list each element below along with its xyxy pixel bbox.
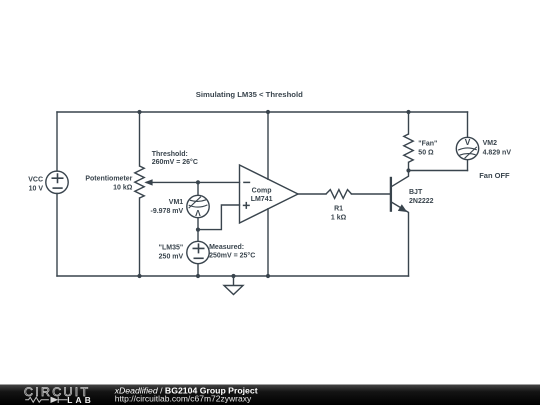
node wiper VM1 junction <box>196 180 200 184</box>
svg-text:V: V <box>465 137 471 147</box>
svg-text:10 V: 10 V <box>29 185 44 192</box>
resistor "Fan" 50 ohm <box>404 134 413 162</box>
wire R1 to BJT base <box>352 193 391 195</box>
wire wiper to op-amp minus input <box>147 181 240 183</box>
svg-text:260mV = 26°C: 260mV = 26°C <box>152 158 198 166</box>
svg-text:Potentiometer: Potentiometer <box>85 175 132 182</box>
svg-text:"Fan": "Fan" <box>418 140 437 147</box>
svg-text:V: V <box>195 208 201 218</box>
node top rail op-amp junction <box>266 110 270 114</box>
svg-text:Comp: Comp <box>252 187 272 194</box>
svg-text:R1: R1 <box>334 205 343 212</box>
svg-text:LM741: LM741 <box>251 196 273 203</box>
wire VM1 to LM35 <box>197 218 199 242</box>
svg-text:250 mV: 250 mV <box>159 253 184 260</box>
wire op-amp top power pin <box>267 112 269 179</box>
svg-text:50 Ω: 50 Ω <box>418 149 434 156</box>
svg-text:VM1: VM1 <box>169 199 184 206</box>
wire VM1 top drop <box>197 182 199 195</box>
voltage source "LM35" <box>187 241 209 263</box>
ground <box>224 276 243 295</box>
potentiometer wiper arrow <box>144 179 152 185</box>
svg-text:VCC: VCC <box>28 176 43 183</box>
wire plus input branch <box>198 205 240 230</box>
svg-text:Threshold:: Threshold: <box>152 151 188 158</box>
wire VM2 bottom <box>467 160 469 171</box>
voltmeter VM1 (rotated 180) <box>187 195 209 218</box>
node bottom rail LM35 junction <box>196 274 200 278</box>
svg-text:4.829 nV: 4.829 nV <box>483 149 512 156</box>
node VM1 LM35 junction <box>196 228 200 232</box>
wire potentiometer bottom riser <box>139 198 141 276</box>
node bottom rail op-amp junction <box>266 274 270 278</box>
node bottom rail ground junction <box>231 274 235 278</box>
resistor R1 1k <box>326 190 352 199</box>
wire left rail upper <box>56 112 58 171</box>
svg-text:250mV = 25°C: 250mV = 25°C <box>209 252 255 260</box>
wire left rail lower <box>56 194 58 277</box>
svg-text:1 kΩ: 1 kΩ <box>331 214 347 221</box>
wire bottom rail <box>57 275 409 277</box>
node top rail fan junction <box>406 110 410 114</box>
wire op-amp output <box>298 193 326 195</box>
svg-text:Measured:: Measured: <box>209 244 244 251</box>
svg-text:"LM35": "LM35" <box>159 245 184 252</box>
node bottom rail pot junction <box>137 274 141 278</box>
wire fan branch top <box>408 112 410 134</box>
svg-text:BJT: BJT <box>409 189 423 196</box>
wire VM2 top <box>467 112 469 137</box>
wire collector node to VM2 <box>409 170 468 172</box>
node top rail pot junction <box>137 110 141 114</box>
potentiometer R2 10k <box>135 166 144 198</box>
wire top rail <box>57 111 468 113</box>
voltmeter VM2 <box>456 137 478 159</box>
svg-text:LAB: LAB <box>67 395 94 405</box>
wire emitter run <box>392 202 409 276</box>
footer bar <box>0 385 540 405</box>
voltage source VCC V1 <box>46 171 68 193</box>
wire op-amp bottom power pin <box>267 209 269 276</box>
svg-text:Simulating LM35 < Threshold: Simulating LM35 < Threshold <box>196 90 303 99</box>
svg-text:Fan OFF: Fan OFF <box>479 171 510 180</box>
svg-text:-9.978 mV: -9.978 mV <box>151 208 184 215</box>
svg-text:VM2: VM2 <box>483 140 498 147</box>
transistor Q1 2N2222 <box>390 177 392 212</box>
wire LM35 bottom <box>197 264 199 276</box>
node collector junction <box>406 168 410 172</box>
wire potentiometer top riser <box>139 112 141 166</box>
op-amp U1 LM741 <box>240 165 299 223</box>
svg-text:http://circuitlab.com/c67m72zy: http://circuitlab.com/c67m72zywraxy <box>115 394 252 404</box>
logo resistor diode row <box>25 397 67 403</box>
wire collector stub <box>392 171 409 187</box>
svg-text:2N2222: 2N2222 <box>409 198 434 205</box>
svg-text:10 kΩ: 10 kΩ <box>113 184 133 191</box>
wire fan bottom to collector node <box>408 162 410 170</box>
transistor emitter arrowhead <box>398 204 407 212</box>
